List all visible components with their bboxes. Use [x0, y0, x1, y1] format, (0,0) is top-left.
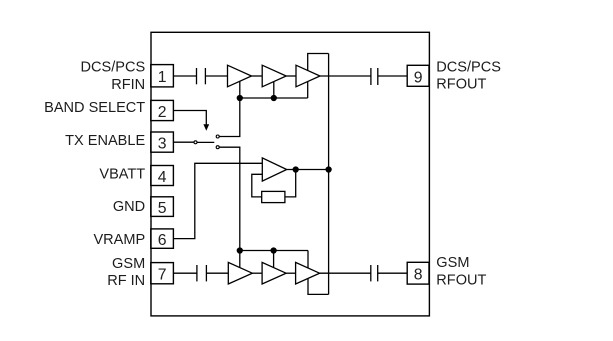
svg-text:DCS/PCS: DCS/PCS: [436, 59, 501, 75]
wire C4 to pin8: [378, 272, 408, 274]
capacitor C1 (DCS input): [197, 68, 206, 84]
wire pin3 to switch pole: [173, 141, 194, 143]
wire A2 bias stub: [273, 82, 275, 99]
svg-text:GSM: GSM: [436, 255, 469, 271]
amplifier A1 (DCS stage 1): [228, 65, 252, 87]
wire pin2 to switch arrow: [173, 111, 206, 126]
wire pin7 to C2: [173, 272, 197, 274]
wire feedback right leg: [285, 170, 296, 197]
svg-text:2: 2: [158, 104, 167, 121]
svg-text:VBATT: VBATT: [99, 166, 145, 182]
wire A6 to C4: [320, 272, 371, 274]
svg-text:5: 5: [158, 200, 167, 217]
wire A3 bias stub: [307, 82, 309, 99]
svg-text:4: 4: [158, 169, 167, 186]
wire GSM bias line: [240, 250, 308, 252]
wire A1 to A2: [252, 75, 263, 77]
wire A6 bias stub: [307, 251, 309, 268]
svg-text:VRAMP: VRAMP: [93, 232, 145, 248]
amplifier A5 (GSM stage 2): [262, 262, 286, 284]
wire A2 to A3: [286, 75, 296, 77]
switch S1 throw contact GSM: [216, 146, 219, 149]
svg-text:8: 8: [414, 267, 423, 284]
wire A1 bias stub: [239, 81, 241, 98]
wire A4 bias stub: [239, 251, 241, 268]
wire C2 to A4: [206, 272, 228, 274]
pin 9 box: [407, 65, 429, 86]
svg-text:BAND SELECT: BAND SELECT: [44, 100, 145, 116]
node U2 output junction: [293, 167, 298, 172]
svg-text:3: 3: [158, 136, 167, 153]
amplifier A2 (DCS stage 2): [262, 65, 286, 87]
wire pin6 VRAMP to op-amp input: [173, 163, 262, 238]
switch S1 arm: [197, 141, 214, 143]
wire C3 to pin9: [378, 75, 407, 77]
svg-text:GND: GND: [113, 199, 145, 215]
wire pin1 to C1: [173, 75, 196, 77]
svg-text:RFIN: RFIN: [111, 77, 145, 93]
wire U2 output: [287, 169, 329, 171]
switch S1 pole contact: [194, 141, 197, 144]
pin 4 box: [151, 166, 174, 186]
node DCS bias junction 1: [237, 96, 242, 101]
svg-text:TX ENABLE: TX ENABLE: [65, 133, 145, 149]
wire A3 top feed loop: [308, 54, 329, 71]
capacitor C3 (DCS output): [371, 68, 378, 85]
pin 2 box: [151, 100, 174, 120]
amplifier A6 (GSM stage 3): [296, 262, 320, 284]
node GSM bias junction 1: [237, 248, 242, 253]
svg-text:DCS/PCS: DCS/PCS: [81, 60, 146, 76]
wire A6 bottom feed loop: [308, 279, 329, 295]
wire feedback left leg: [252, 174, 262, 197]
switch S1 throw contact DCS: [216, 135, 219, 138]
wire A5 bias stub: [273, 251, 275, 268]
node GSM bias junction 2: [271, 248, 276, 253]
pin 1 box: [151, 65, 174, 87]
node DCS bias junction 2: [271, 96, 276, 101]
pin 7 box: [151, 263, 174, 284]
pin 8 box: [407, 262, 429, 284]
node rail junction: [326, 167, 331, 172]
resistor R1 (feedback): [262, 191, 285, 202]
svg-text:7: 7: [158, 267, 167, 284]
svg-text:1: 1: [158, 69, 167, 86]
capacitor C4 (GSM output): [371, 265, 378, 281]
svg-text:6: 6: [158, 232, 167, 249]
amplifier A4 (GSM stage 1): [228, 262, 252, 284]
wire A3 to C3: [320, 75, 371, 77]
svg-text:9: 9: [414, 69, 423, 86]
IC package outline U1: [151, 32, 429, 316]
wire C1 to amplifier A1: [205, 75, 227, 77]
band select control arrowhead: [203, 124, 209, 131]
svg-text:GSM: GSM: [112, 256, 145, 272]
svg-text:RFOUT: RFOUT: [436, 77, 486, 93]
pin 3 box: [151, 132, 174, 152]
op-amp U2 (bias control): [262, 158, 286, 181]
pin 6 box: [151, 229, 174, 248]
pin 5 box: [151, 197, 174, 217]
amplifier A3 (DCS stage 3): [296, 65, 320, 87]
wire throw GSM to bias line: [219, 147, 240, 250]
svg-text:RFOUT: RFOUT: [436, 273, 486, 289]
svg-text:RF IN: RF IN: [107, 273, 145, 289]
wire DCS bias line: [240, 97, 308, 99]
wire bias rail vertical: [328, 54, 330, 295]
wire throw DCS to bias line: [219, 98, 240, 137]
capacitor C2 (GSM input): [197, 265, 207, 281]
wire A5 to A6: [286, 272, 296, 274]
wire A4 to A5: [252, 272, 262, 274]
